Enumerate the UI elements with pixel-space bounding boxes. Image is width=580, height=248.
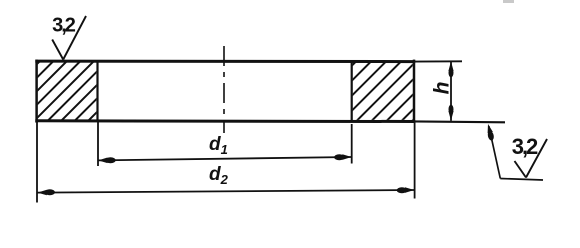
roughness symbol top-left check bbox=[52, 16, 86, 60]
dimension line d1 bbox=[98, 157, 351, 160]
hatching right section bbox=[278, 0, 534, 140]
svg-text:3,2: 3,2 bbox=[512, 134, 538, 159]
roughness shelf bottom-right bbox=[500, 179, 543, 181]
arrow d1 right bbox=[342, 154, 351, 160]
roughness leader arrow bottom-right bbox=[488, 124, 493, 133]
hatching left section bbox=[0, 0, 209, 140]
bottom edge extension right bbox=[414, 120, 505, 123]
roughness leader line bbox=[489, 126, 501, 179]
svg-text:3,2: 3,2 bbox=[52, 15, 76, 37]
top edge extension right bbox=[414, 60, 462, 62]
arrow h bottom bbox=[448, 111, 453, 121]
extension line right outer bbox=[414, 122, 416, 199]
svg-text:h: h bbox=[431, 82, 454, 95]
faint scan smudge top bbox=[503, 0, 514, 3]
washer top edge bbox=[35, 60, 415, 64]
washer bottom edge bbox=[35, 119, 415, 123]
dimension line d2 bbox=[37, 190, 414, 193]
extension line right hole bbox=[351, 124, 353, 164]
dimension line h bbox=[450, 62, 452, 121]
extension line left outer bbox=[36, 122, 38, 203]
extension line left hole bbox=[97, 122, 99, 166]
right hole edge bbox=[351, 61, 353, 122]
centerline bbox=[223, 46, 225, 133]
arrow h top bbox=[448, 61, 453, 71]
arrow d2 right bbox=[405, 187, 414, 193]
left hole edge bbox=[96, 61, 98, 122]
arrow d1 left bbox=[98, 158, 107, 164]
roughness symbol bottom-right check bbox=[515, 139, 548, 178]
arrow d2 left bbox=[38, 190, 47, 196]
washer right edge bbox=[413, 60, 416, 123]
washer left edge bbox=[35, 60, 38, 123]
